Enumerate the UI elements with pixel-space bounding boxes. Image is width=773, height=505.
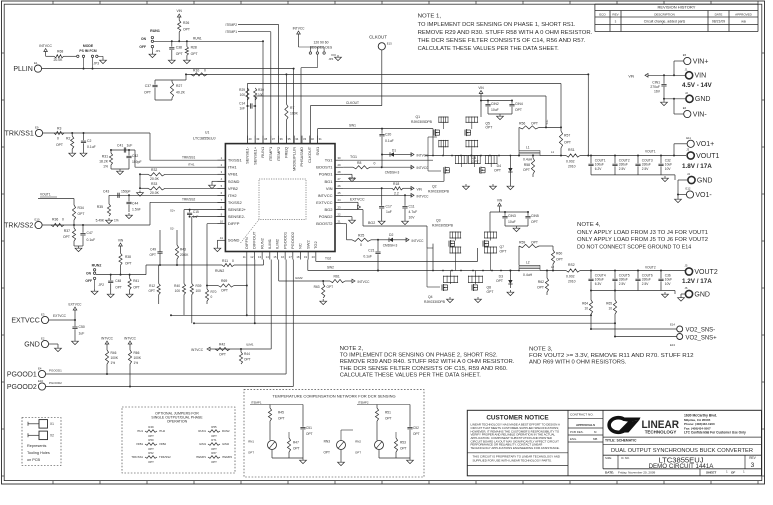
svg-text:C21: C21 <box>368 249 374 253</box>
svg-text:RN1: RN1 <box>248 440 254 444</box>
svg-text:C50: C50 <box>79 325 85 329</box>
svg-text:TRK/SS2: TRK/SS2 <box>182 198 196 202</box>
svg-text:VIN: VIN <box>118 239 124 243</box>
svg-text:C47: C47 <box>87 231 93 235</box>
svg-text:CALCULATE THESE VALUES PER THE: CALCULATE THESE VALUES PER THE DATA SHEE… <box>340 373 481 379</box>
svg-text:R8: R8 <box>357 161 361 165</box>
svg-text:0: 0 <box>360 243 362 247</box>
svg-text:OPT: OPT <box>115 286 122 290</box>
svg-text:19: 19 <box>304 255 308 259</box>
svg-text:PS fM FCM: PS fM FCM <box>79 49 96 53</box>
svg-text:OPT: OPT <box>556 258 563 262</box>
svg-text:LTC Confidential For Customer: LTC Confidential For Customer Use Only <box>684 431 746 435</box>
svg-text:ITEMP2: ITEMP2 <box>225 23 237 27</box>
svg-text:21: 21 <box>337 219 341 223</box>
svg-text:1.5nF: 1.5nF <box>132 208 141 212</box>
svg-text:PGOOD1: PGOOD1 <box>282 231 287 249</box>
svg-text:10V: 10V <box>665 167 672 171</box>
svg-text:ON: ON <box>86 272 92 276</box>
svg-text:ITH1: ITH1 <box>188 162 195 166</box>
svg-text:ITEMP1: ITEMP1 <box>225 30 237 34</box>
svg-text:OPT: OPT <box>385 417 392 421</box>
svg-text:VIN: VIN <box>497 199 503 203</box>
svg-text:5.49K: 5.49K <box>96 219 105 223</box>
svg-text:R29: R29 <box>239 88 245 92</box>
svg-text:RUN2: RUN2 <box>222 429 230 433</box>
svg-text:0.1uF: 0.1uF <box>363 255 372 259</box>
svg-text:VFB1: VFB1 <box>228 172 239 177</box>
svg-text:C51: C51 <box>306 426 312 430</box>
svg-text:E9: E9 <box>35 125 39 129</box>
svg-text:NOTE 1,: NOTE 1, <box>418 14 442 20</box>
svg-text:RJK0330DPB: RJK0330DPB <box>428 190 450 194</box>
svg-text:RJK0305DPB: RJK0305DPB <box>411 120 433 124</box>
svg-text:AND R69 WITH 0 OHM RESISTORS.: AND R69 WITH 0 OHM RESISTORS. <box>529 360 627 366</box>
svg-text:VIN: VIN <box>326 186 333 191</box>
svg-text:ITEMP2: ITEMP2 <box>276 146 281 161</box>
svg-text:PHSASMD: PHSASMD <box>299 147 304 167</box>
svg-text:REMOVE R29 AND R30. STUFF R58: REMOVE R29 AND R30. STUFF R58 WITH A 0 O… <box>418 30 593 36</box>
svg-text:C37: C37 <box>145 84 151 88</box>
svg-text:L2: L2 <box>526 261 530 265</box>
svg-text:J5: J5 <box>685 264 688 268</box>
svg-text:D1: D1 <box>392 149 396 153</box>
svg-text:R57: R57 <box>564 134 570 138</box>
svg-text:10uF: 10uF <box>665 163 672 167</box>
svg-text:OPT: OPT <box>244 358 251 362</box>
svg-text:INTVCC: INTVCC <box>417 166 430 170</box>
svg-text:3: 3 <box>751 462 755 469</box>
svg-text:ILIM2: ILIM2 <box>222 442 229 446</box>
svg-text:ITEMP2: ITEMP2 <box>222 455 233 459</box>
svg-text:U1: U1 <box>205 131 209 135</box>
svg-text:R31: R31 <box>102 155 108 159</box>
svg-text:S1+: S1+ <box>545 119 549 124</box>
svg-text:Circuit change, added parts: Circuit change, added parts <box>644 19 686 23</box>
svg-text:INTVCC: INTVCC <box>101 337 114 341</box>
svg-text:OPT: OPT <box>306 432 313 436</box>
svg-text:CIN1: CIN1 <box>652 81 660 85</box>
svg-text:TRK/SS2: TRK/SS2 <box>4 222 33 229</box>
svg-text:10uF: 10uF <box>665 278 672 282</box>
svg-text:OPT: OPT <box>500 249 507 253</box>
svg-text:TRK/SS1: TRK/SS1 <box>131 455 143 459</box>
svg-text:R10: R10 <box>193 69 199 73</box>
svg-text:TG2: TG2 <box>325 256 331 260</box>
svg-text:BG2: BG2 <box>324 207 333 212</box>
svg-text:TO IMPLEMENT DCR SENSING ON PH: TO IMPLEMENT DCR SENSING ON PHASE 2, SHO… <box>340 353 498 359</box>
svg-text:INTVCC: INTVCC <box>417 194 430 198</box>
svg-text:ILIM2: ILIM2 <box>275 238 280 249</box>
svg-text:TK/SS2: TK/SS2 <box>228 200 243 205</box>
svg-text:R12: R12 <box>149 284 155 288</box>
svg-text:EXTVCC: EXTVCC <box>53 314 67 318</box>
svg-text:100: 100 <box>175 289 181 293</box>
svg-text:TRK/SS2: TRK/SS2 <box>159 455 171 459</box>
svg-text:VFB2: VFB2 <box>228 186 239 191</box>
svg-text:1uF: 1uF <box>127 144 133 148</box>
svg-text:OPT: OPT <box>496 279 503 283</box>
svg-text:20.0K: 20.0K <box>180 253 189 257</box>
svg-text:R56: R56 <box>519 122 525 126</box>
svg-text:R47: R47 <box>293 441 299 445</box>
svg-text:D3: D3 <box>499 275 503 279</box>
svg-text:SW1: SW1 <box>315 146 320 155</box>
svg-text:S2-: S2- <box>170 227 174 231</box>
svg-text:R66: R66 <box>134 351 140 355</box>
svg-text:ECO: ECO <box>599 12 606 16</box>
svg-text:C15: C15 <box>193 210 199 214</box>
svg-text:Q1: Q1 <box>416 115 421 119</box>
svg-text:VIN: VIN <box>417 187 423 191</box>
svg-text:REMOVE R39 AND R40. STUFF R62: REMOVE R39 AND R40. STUFF R62 WITH A 0 O… <box>340 359 515 365</box>
svg-text:VIN-: VIN- <box>693 111 708 118</box>
svg-text:CLKOUT: CLKOUT <box>369 35 387 40</box>
svg-text:JP3: JP3 <box>94 62 100 66</box>
svg-text:OPT: OPT <box>327 285 334 289</box>
svg-text:E16: E16 <box>38 379 43 383</box>
svg-text:R30: R30 <box>258 88 264 92</box>
svg-text:E14: E14 <box>670 323 675 327</box>
svg-text:INTVCC: INTVCC <box>293 27 306 31</box>
svg-text:SENSE1+: SENSE1+ <box>252 146 257 165</box>
svg-text:BG1: BG1 <box>349 176 356 180</box>
svg-text:R7: R7 <box>290 106 294 110</box>
svg-text:1%: 1% <box>103 165 108 169</box>
svg-text:1%: 1% <box>114 219 119 223</box>
svg-text:OPT: OPT <box>355 451 361 455</box>
svg-text:PGOOD2: PGOOD2 <box>49 381 62 385</box>
svg-text:R49: R49 <box>148 425 154 429</box>
svg-text:X2: X2 <box>50 434 54 438</box>
svg-text:NOTE 3,: NOTE 3, <box>529 346 553 352</box>
svg-text:Q2: Q2 <box>432 185 437 189</box>
svg-text:27: 27 <box>337 177 341 181</box>
svg-text:DESCRIPTION: DESCRIPTION <box>654 12 675 16</box>
svg-text:C11: C11 <box>409 204 415 208</box>
svg-text:R33: R33 <box>151 182 157 186</box>
svg-text:10: 10 <box>584 307 588 311</box>
svg-text:WB: WB <box>741 19 746 23</box>
svg-text:CUSTOMER NOTICE: CUSTOMER NOTICE <box>486 415 549 422</box>
svg-text:0: 0 <box>62 218 64 222</box>
svg-text:TG2: TG2 <box>313 240 318 249</box>
svg-text:VOUT2: VOUT2 <box>694 269 717 276</box>
svg-text:30: 30 <box>337 156 341 160</box>
svg-text:2010: 2010 <box>568 280 576 284</box>
svg-text:J3: J3 <box>686 148 689 152</box>
svg-text:R46: R46 <box>111 351 117 355</box>
svg-text:J4: J4 <box>687 172 690 176</box>
svg-text:VFB1: VFB1 <box>136 442 143 446</box>
svg-text:C17: C17 <box>386 204 392 208</box>
svg-text:S2+: S2+ <box>170 209 175 213</box>
svg-text:CIN4: CIN4 <box>515 102 523 106</box>
svg-text:INTVCC: INTVCC <box>39 44 52 48</box>
svg-text:DO NOT CONNECT SCOPE GROUND TO: DO NOT CONNECT SCOPE GROUND TO E14 <box>577 244 692 250</box>
svg-text:L1: L1 <box>526 146 530 150</box>
svg-text:R65: R65 <box>606 302 612 306</box>
svg-text:150pF: 150pF <box>132 160 142 164</box>
svg-text:2.5V: 2.5V <box>642 167 649 171</box>
svg-text:E12: E12 <box>686 187 691 191</box>
svg-text:C52: C52 <box>413 426 419 430</box>
svg-text:ITEMP1: ITEMP1 <box>251 400 262 404</box>
svg-text:SHEET: SHEET <box>706 470 716 474</box>
svg-text:10V: 10V <box>409 215 416 219</box>
svg-text:SW1: SW1 <box>349 123 356 127</box>
svg-text:C14: C14 <box>239 102 245 106</box>
svg-text:R55: R55 <box>211 425 217 429</box>
svg-text:E2: E2 <box>41 336 45 340</box>
svg-text:OPT: OPT <box>515 108 522 112</box>
svg-text:COUT4: COUT4 <box>595 273 606 277</box>
svg-text:OPT: OPT <box>248 451 254 455</box>
svg-text:CIN2: CIN2 <box>491 102 499 106</box>
svg-text:CLKOUT: CLKOUT <box>346 101 359 105</box>
svg-text:OPT: OPT <box>487 290 494 294</box>
svg-text:IC NO.: IC NO. <box>621 456 630 460</box>
svg-text:L2: L2 <box>551 265 555 269</box>
svg-text:1: 1 <box>743 469 745 473</box>
svg-text:PGND2: PGND2 <box>319 214 334 219</box>
svg-text:330uF: 330uF <box>642 163 651 167</box>
svg-text:R34: R34 <box>78 206 84 210</box>
svg-text:0.002: 0.002 <box>566 275 575 279</box>
svg-text:C32: C32 <box>665 158 671 162</box>
svg-text:INTVCC: INTVCC <box>191 348 204 352</box>
svg-text:R2: R2 <box>66 137 70 141</box>
svg-text:J1: J1 <box>685 68 688 72</box>
svg-text:OPT: OPT <box>531 122 538 126</box>
svg-text:40.2K: 40.2K <box>176 91 186 95</box>
svg-text:D2: D2 <box>389 233 393 237</box>
svg-text:INTVCC: INTVCC <box>124 337 137 341</box>
svg-text:C48: C48 <box>115 279 121 283</box>
svg-text:MODE/PLLIN: MODE/PLLIN <box>291 147 296 171</box>
svg-text:18.2K: 18.2K <box>99 160 109 164</box>
svg-text:REV: REV <box>749 456 756 460</box>
svg-text:25: 25 <box>337 191 341 195</box>
svg-text:OPT: OPT <box>293 447 300 451</box>
svg-text:2.5V: 2.5V <box>642 282 649 286</box>
svg-text:TECHNOLOGY APPLICATIONS ENGINE: TECHNOLOGY APPLICATIONS ENGINEERING FOR … <box>471 446 560 450</box>
svg-text:THE DCR SENSE FILTER CONSISTS: THE DCR SENSE FILTER CONSISTS OF C15, R5… <box>340 366 508 372</box>
svg-text:R67: R67 <box>211 451 217 455</box>
svg-text:R38: R38 <box>125 255 131 259</box>
svg-text:THE DCR SENSE FILTER CONSISTS: THE DCR SENSE FILTER CONSISTS OF C14, R5… <box>418 38 586 44</box>
svg-text:12: 12 <box>250 255 254 259</box>
svg-text:VIN: VIN <box>628 74 634 78</box>
svg-text:BOOST1: BOOST1 <box>316 165 333 170</box>
svg-text:0: 0 <box>204 69 206 73</box>
svg-text:TITLE: SCHEMATIC: TITLE: SCHEMATIC <box>605 439 637 443</box>
svg-text:OFF: OFF <box>139 45 146 49</box>
svg-text:CONTRACT NO.: CONTRACT NO. <box>570 413 594 417</box>
svg-text:SGND: SGND <box>228 238 240 243</box>
svg-text:35: 35 <box>287 137 291 141</box>
svg-text:OPT: OPT <box>323 451 330 455</box>
svg-text:BOOST2: BOOST2 <box>316 221 333 226</box>
svg-text:29: 29 <box>337 163 341 167</box>
svg-text:0.1uF: 0.1uF <box>87 238 96 242</box>
svg-text:DIFFOUT: DIFFOUT <box>252 231 257 249</box>
svg-text:0: 0 <box>374 162 376 166</box>
svg-text:OPT: OPT <box>221 289 228 293</box>
svg-text:R36: R36 <box>52 218 58 222</box>
svg-text:ITEMP1: ITEMP1 <box>268 146 273 161</box>
svg-text:PGND1: PGND1 <box>319 172 334 177</box>
svg-text:100K: 100K <box>111 356 119 360</box>
svg-text:TG1: TG1 <box>325 158 334 163</box>
svg-text:37: 37 <box>272 137 276 141</box>
svg-text:100: 100 <box>196 289 202 293</box>
svg-text:100uF: 100uF <box>595 163 604 167</box>
svg-text:RS2: RS2 <box>568 263 575 267</box>
svg-text:E13: E13 <box>670 343 675 347</box>
svg-text:C41: C41 <box>117 144 123 148</box>
svg-text:OPT: OPT <box>564 141 571 145</box>
svg-text:ITH2: ITH2 <box>228 193 237 198</box>
svg-text:CALCULATE THESE VALUES PER THE: CALCULATE THESE VALUES PER THE DATA SHEE… <box>418 46 559 52</box>
svg-text:VO1-: VO1- <box>695 192 712 199</box>
svg-text:LTC3855EUJ: LTC3855EUJ <box>193 137 216 141</box>
svg-text:R52: R52 <box>148 451 154 455</box>
svg-text:10uF: 10uF <box>491 108 499 112</box>
svg-text:CMDSH-3: CMDSH-3 <box>383 244 398 248</box>
svg-text:330uF: 330uF <box>619 163 628 167</box>
svg-text:OPT: OPT <box>191 52 198 56</box>
svg-text:16V: 16V <box>654 90 661 94</box>
svg-text:VOUT1: VOUT1 <box>645 149 656 153</box>
svg-text:ITEMP2: ITEMP2 <box>358 400 369 404</box>
svg-text:R35: R35 <box>97 205 103 209</box>
svg-text:R32: R32 <box>151 168 157 172</box>
svg-text:10: 10 <box>608 307 612 311</box>
svg-text:OPT: OPT <box>148 289 155 293</box>
svg-text:PGOOD2: PGOOD2 <box>7 384 37 391</box>
svg-text:41: 41 <box>220 236 224 240</box>
svg-text:1%: 1% <box>111 361 116 365</box>
svg-text:C44: C44 <box>132 202 138 206</box>
svg-text:ONLY APPLY LOAD FROM J5 TO J6: ONLY APPLY LOAD FROM J5 TO J6 FOR VOUT2 <box>577 237 708 243</box>
svg-text:24: 24 <box>337 198 341 202</box>
svg-text:DIFFP: DIFFP <box>228 221 240 226</box>
svg-text:C43: C43 <box>103 190 109 194</box>
svg-text:OPT: OPT <box>531 220 538 224</box>
svg-text:RJK0330DPB: RJK0330DPB <box>424 300 446 304</box>
svg-text:RN3: RN3 <box>324 440 331 444</box>
svg-text:TECHNOLOGY: TECHNOLOGY <box>645 429 677 434</box>
svg-text:C42: C42 <box>132 154 138 158</box>
svg-text:RUN2: RUN2 <box>215 269 224 273</box>
svg-text:34: 34 <box>295 137 299 141</box>
svg-text:RUN2: RUN2 <box>259 237 264 249</box>
svg-text:1nF: 1nF <box>193 215 199 219</box>
svg-text:SUPPLIED FOR USE WITH LINEAR T: SUPPLIED FOR USE WITH LINEAR TECHNOLOGY … <box>473 459 552 463</box>
svg-text:0.1uF: 0.1uF <box>385 139 394 143</box>
svg-text:C20: C20 <box>385 133 391 137</box>
svg-text:EXTVCC: EXTVCC <box>11 317 39 324</box>
svg-text:SIZE: SIZE <box>605 456 611 460</box>
svg-text:R59: R59 <box>519 240 525 244</box>
svg-text:R61: R61 <box>334 275 340 279</box>
svg-text:330uF: 330uF <box>642 278 651 282</box>
svg-text:COUT6: COUT6 <box>642 273 653 277</box>
svg-text:on PCB: on PCB <box>27 458 41 462</box>
svg-text:2010: 2010 <box>568 165 576 169</box>
svg-text:0.4uH: 0.4uH <box>523 273 533 277</box>
svg-text:RUN1: RUN1 <box>193 37 202 41</box>
svg-text:R25: R25 <box>358 233 364 237</box>
svg-text:RUN2: RUN2 <box>92 263 102 267</box>
svg-text:VO1+: VO1+ <box>696 141 714 148</box>
svg-text:GND: GND <box>697 177 713 184</box>
svg-text:RS1: RS1 <box>568 148 575 152</box>
svg-text:ENG.: ENG. <box>570 437 577 441</box>
svg-text:SENSE2+: SENSE2+ <box>228 207 247 212</box>
svg-text:R28: R28 <box>191 46 197 50</box>
svg-text:VOUT1: VOUT1 <box>40 193 51 197</box>
svg-text:VOUT1: VOUT1 <box>696 153 719 160</box>
svg-text:R26: R26 <box>183 21 189 25</box>
svg-text:R27: R27 <box>176 84 182 88</box>
svg-text:100: 100 <box>240 93 246 97</box>
svg-text:TG1: TG1 <box>350 155 357 159</box>
svg-text:36: 36 <box>280 137 284 141</box>
svg-text:150pF: 150pF <box>121 190 131 194</box>
svg-text:13: 13 <box>258 255 262 259</box>
svg-text:Friday, November 20, 2009: Friday, November 20, 2009 <box>618 470 656 474</box>
svg-text:ILIM1: ILIM1 <box>267 238 272 249</box>
svg-text:120 90 60: 120 90 60 <box>313 41 328 45</box>
svg-text:NOTE 2,: NOTE 2, <box>340 346 364 352</box>
svg-text:08/21/09: 08/21/09 <box>712 19 725 23</box>
svg-text:VO2_SNS-: VO2_SNS- <box>686 327 716 333</box>
svg-text:6.3V: 6.3V <box>595 282 602 286</box>
svg-text:E10: E10 <box>35 217 40 221</box>
svg-text:DIFFN: DIFFN <box>244 237 249 249</box>
svg-text:1uF: 1uF <box>386 210 392 214</box>
svg-text:SW2: SW2 <box>305 240 310 249</box>
svg-text:R64: R64 <box>582 302 588 306</box>
svg-text:COUT5: COUT5 <box>619 273 630 277</box>
svg-text:0.1uF: 0.1uF <box>87 145 96 149</box>
svg-text:C49: C49 <box>150 248 156 252</box>
svg-text:R50: R50 <box>148 438 154 442</box>
svg-text:20.0K: 20.0K <box>150 177 160 181</box>
svg-text:23: 23 <box>337 205 341 209</box>
svg-text:17: 17 <box>289 255 293 259</box>
svg-text:C36: C36 <box>665 273 671 277</box>
svg-text:1nF: 1nF <box>240 107 246 111</box>
svg-text:1.8V / 17A: 1.8V / 17A <box>682 163 712 170</box>
svg-text:R70: R70 <box>211 290 217 294</box>
svg-text:40: 40 <box>248 137 252 141</box>
svg-text:R43: R43 <box>180 248 186 252</box>
svg-text:VOUT2: VOUT2 <box>645 265 656 269</box>
svg-text:1uF: 1uF <box>79 332 85 336</box>
svg-text:PGOOD1: PGOOD1 <box>49 369 62 373</box>
svg-text:11: 11 <box>243 255 246 259</box>
svg-text:EXTVCC: EXTVCC <box>316 200 332 205</box>
svg-text:R42: R42 <box>219 343 225 347</box>
svg-text:E6: E6 <box>683 106 687 110</box>
svg-text:15: 15 <box>273 255 277 259</box>
svg-text:0: 0 <box>232 259 234 263</box>
svg-text:18: 18 <box>296 255 300 259</box>
svg-text:EXTVCC: EXTVCC <box>350 197 365 201</box>
